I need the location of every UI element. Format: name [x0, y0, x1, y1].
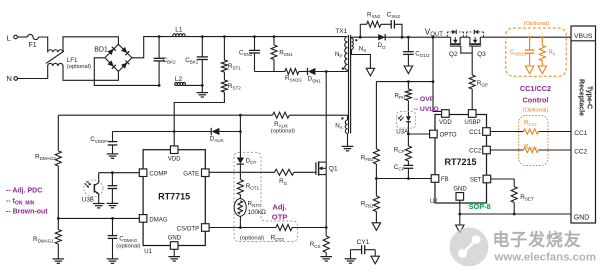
svg-text:USBP: USBP: [464, 120, 480, 126]
ground at Rb: [538, 66, 546, 74]
transformer TX1 core: [349, 35, 351, 133]
ground primary at U1 GND: [168, 257, 180, 261]
resistor RST2: [221, 72, 241, 92]
svg-text:GND: GND: [453, 187, 467, 193]
capacitor at COMP: [108, 173, 118, 204]
wire Q1 source down to CS node: [325, 168, 327, 236]
ground primary at CDMAG: [107, 259, 119, 263]
node junction RDMAG divider: [57, 217, 60, 220]
wire VBUS rail Q3 to receptacle: [480, 36, 571, 38]
terminal L (AC line input): [7, 34, 18, 43]
wire ground rail L2 to CBK1: [186, 84, 203, 86]
wire VDD sense from VOUT: [433, 37, 442, 111]
svg-text:(optional): (optional): [67, 64, 91, 70]
resistor RCC2 (optional): [524, 145, 539, 153]
ground primary at COMP cap: [107, 203, 119, 207]
svg-text:U3B: U3B: [82, 197, 94, 204]
svg-text:100kΩ: 100kΩ: [248, 209, 267, 216]
svg-text:DMAG: DMAG: [149, 218, 167, 224]
svg-text:L2: L2: [175, 76, 183, 83]
terminal N (AC neutral input): [7, 74, 18, 83]
svg-text:N: N: [7, 74, 12, 83]
pin COMP of U1: [139, 169, 167, 177]
ground primary at CVDDP: [107, 154, 119, 158]
common-mode choke LF1 (optional): [46, 50, 91, 70]
pin SET of U2: [470, 175, 491, 183]
svg-text:CC1: CC1: [574, 130, 587, 137]
thermistor RNTC 100k: [234, 199, 266, 228]
transistor Q3 (load switch): [467, 30, 487, 59]
node junction CDMAG top: [111, 217, 114, 220]
wire U2 GND pin down: [459, 200, 461, 225]
svg-text:-- UVLO: -- UVLO: [414, 106, 439, 113]
svg-text:Adj.: Adj.: [272, 203, 286, 212]
label CC1/CC2 Control: [520, 84, 551, 114]
wire CS/OTP line: [209, 227, 326, 229]
svg-text:(optional): (optional): [271, 128, 295, 134]
node junction drain at snubber: [325, 70, 328, 73]
label UVLO: [414, 106, 439, 113]
svg-text:SOP-8: SOP-8: [469, 202, 491, 211]
node junction FB divider: [375, 177, 378, 180]
resistor RCC1 (optional): [524, 120, 539, 134]
optional label above CVBUS box: [524, 21, 550, 27]
snubber capacitor CSN2: [381, 12, 402, 38]
node junction RPH top: [407, 80, 410, 83]
capacitor CBK2: [154, 37, 177, 86]
wire VDD rail: [113, 131, 241, 133]
svg-text:FB: FB: [441, 177, 449, 183]
node junction CS at Q1 source: [325, 226, 328, 229]
optocoupler U3B (transistor side): [82, 173, 103, 204]
svg-text:RT7215: RT7215: [444, 157, 476, 167]
svg-text:F1: F1: [29, 42, 37, 49]
svg-text:-- Brown-out: -- Brown-out: [6, 209, 48, 216]
ground at CVBUS: [525, 66, 533, 74]
resistor RAUX (optional): [271, 112, 295, 134]
transformer TX1 secondary winding NS: [352, 38, 367, 53]
pin CC2 of U2: [469, 146, 490, 154]
label OVP: [414, 96, 435, 103]
resistor RCS: [310, 236, 330, 257]
wire NA top to aux line: [347, 115, 349, 120]
pin OPTO of U2: [430, 130, 457, 138]
diode DSN1: [308, 68, 322, 83]
node junction VDD pin feed: [173, 130, 176, 133]
svg-text:Control: Control: [523, 96, 549, 105]
capacitor CVDDP: [90, 132, 117, 154]
resistor RST1: [221, 37, 241, 73]
controller U1 RT7715 body: [143, 150, 205, 255]
node junction VOUT sense: [432, 36, 435, 39]
svg-text:CC2: CC2: [469, 149, 482, 155]
svg-text:电子发烧友: 电子发烧友: [493, 230, 582, 250]
wire NS bottom to secondary ground: [352, 49, 371, 68]
wire RSN1G to DSN1: [299, 71, 308, 73]
wire NA bottom to primary ground: [347, 133, 349, 146]
capacitor CY1: [351, 239, 376, 254]
pin VDD of U2: [439, 110, 452, 126]
svg-text:VBUS: VBUS: [574, 33, 593, 40]
wire output rail NS to Q2: [352, 36, 451, 38]
wire N terminal to LF1 bottom winding: [18, 66, 48, 79]
svg-text:CVBUS: CVBUS: [510, 50, 526, 57]
ground secondary at NS: [366, 68, 374, 76]
svg-text:VDD: VDD: [439, 120, 452, 126]
ground secondary at CY1: [371, 256, 379, 264]
wire secondary GND rail: [460, 213, 571, 215]
optional box RCC1 RCC2: [519, 116, 548, 166]
wire L terminal to fuse F1: [17, 36, 27, 38]
svg-text:VDD: VDD: [168, 156, 181, 162]
svg-text:(Optional): (Optional): [523, 108, 549, 114]
resistor RSN1G: [285, 69, 302, 83]
node junction ground rail at CBK1: [201, 84, 204, 87]
node junction C_BK1 top: [201, 35, 204, 38]
optocoupler U3A (LED side): [396, 112, 415, 136]
fuse F1: [28, 34, 39, 49]
resistor RSET: [511, 187, 534, 215]
node junction snubber2 left: [359, 36, 362, 39]
wire COMP line: [99, 172, 140, 174]
label Adj PDC: [6, 188, 42, 195]
wire U3A to OPTO pin: [408, 122, 429, 134]
wire CC1 line: [490, 131, 571, 133]
wire CC2 line: [490, 149, 571, 151]
wire SET to RSET: [491, 179, 515, 187]
resistor RDMAG1: [33, 218, 61, 259]
svg-text:L1: L1: [175, 26, 183, 33]
pin GND of U2: [453, 187, 467, 201]
resistor RFB2: [361, 82, 380, 179]
capacitor CDMAG (optional): [108, 218, 141, 259]
wire bridge positive output to DC rail: [132, 37, 173, 58]
svg-text:CC2: CC2: [574, 148, 587, 155]
optional box Adj OTP: [234, 152, 298, 241]
node junction CO top: [407, 36, 410, 39]
resistor ROT2 (optional): [271, 225, 292, 242]
svg-text:L: L: [7, 34, 11, 43]
resistor RSN1: [271, 37, 293, 72]
wire FB line: [376, 178, 431, 180]
svg-text:Rb: Rb: [549, 50, 556, 57]
pin DMAG of U1: [139, 215, 167, 224]
node junction comp cap: [111, 171, 114, 174]
svg-text:U1: U1: [144, 249, 152, 255]
node junction GND rail at U2: [458, 213, 461, 216]
wire CY1 left to primary ground: [350, 250, 352, 259]
node junction OTP chain to CS line: [239, 226, 242, 229]
svg-text:BD1: BD1: [94, 46, 108, 53]
wire drain node down to Q1 drain: [325, 72, 327, 163]
ground primary at CBK1: [197, 85, 209, 97]
wire aux line NA to RDMAG2: [58, 114, 347, 116]
op-amp/controller U2 RT7215 body: [430, 115, 487, 205]
wire LF1 top winding to top rail: [63, 37, 118, 53]
wire DC rail L1 to transformer: [185, 36, 347, 38]
Type-C receptacle box: [571, 26, 596, 223]
wire F1 to LF1 top winding: [39, 37, 48, 52]
svg-text:-- Adj. PDC: -- Adj. PDC: [6, 188, 42, 195]
svg-text:Receptacle: Receptacle: [578, 79, 585, 116]
watermark text elecfans: [493, 230, 597, 264]
ground secondary at RFB1: [372, 223, 380, 231]
capacitor CBK1: [185, 37, 208, 86]
svg-text:CC1/CC2: CC1/CC2: [520, 84, 551, 93]
node junction RSET bottom: [513, 213, 516, 216]
node junction C_SN1 top: [253, 35, 256, 38]
capacitor CVBUS (optional): [510, 36, 534, 66]
transformer TX1 label: [335, 28, 347, 35]
wire NP bottom to drain node: [347, 70, 349, 72]
wire RPH feed line: [376, 81, 433, 83]
node junction aux diode to OTP chain: [239, 130, 242, 133]
node junction OPTO node: [407, 133, 410, 136]
svg-text:-- OVP: -- OVP: [414, 96, 435, 103]
node junction ground rail at CBK2: [158, 84, 161, 87]
svg-text:GATE: GATE: [183, 171, 199, 177]
svg-text:TX1: TX1: [335, 28, 347, 35]
svg-text:RCC1: RCC1: [524, 120, 538, 127]
svg-text:OPTO: OPTO: [440, 133, 457, 139]
resistor RCP: [394, 134, 412, 161]
label SOP-8: [469, 202, 491, 211]
pin CS/OTP of U1: [177, 224, 209, 233]
pin CC1 of U2: [469, 128, 490, 136]
resistor RDMAG2: [35, 115, 61, 218]
svg-text:SET: SET: [470, 178, 482, 184]
pin USBP of U2: [464, 110, 480, 126]
ground secondary at CO1/2: [404, 66, 412, 74]
svg-text:Type-C: Type-C: [586, 86, 593, 109]
inductor L1: [173, 26, 186, 36]
transistor Q2 (load switch): [447, 30, 463, 59]
svg-text:CC1: CC1: [469, 130, 482, 136]
node junction R_ST1 top: [223, 35, 226, 38]
transformer TX1 auxiliary winding NA: [335, 117, 347, 133]
node junction CCP bottom: [407, 177, 410, 180]
net label VOUT: [425, 28, 443, 39]
diode DAUX: [210, 128, 224, 143]
resistor RPH: [394, 82, 411, 117]
label Adj OTP: [272, 203, 288, 222]
wire aux junction down to VDD rail: [239, 115, 241, 131]
svg-text:COMP: COMP: [149, 171, 167, 177]
svg-text:RT7715: RT7715: [158, 191, 190, 201]
snubber resistor RSN2: [360, 12, 381, 38]
svg-text:www.elecfans.com: www.elecfans.com: [494, 252, 597, 264]
capacitor CO1/2: [403, 37, 430, 66]
svg-text:GND: GND: [574, 215, 590, 222]
svg-text:OTP: OTP: [272, 213, 288, 222]
node junction C_BK2 top: [158, 35, 161, 38]
transformer TX1 primary winding NP: [335, 37, 348, 70]
wire U1 GND to ground: [173, 249, 175, 256]
resistor ROT1: [237, 164, 259, 199]
svg-text:(optional): (optional): [240, 235, 264, 241]
svg-text:CY1: CY1: [357, 239, 370, 246]
ground primary at RDMAG1: [53, 259, 65, 263]
pin GND of U1: [168, 235, 182, 249]
svg-text:CS/OTP: CS/OTP: [177, 227, 199, 233]
watermark logo: [450, 228, 489, 267]
svg-text:Q1: Q1: [329, 165, 338, 172]
node junction R_SN1 top: [273, 35, 276, 38]
node junction RPH tap: [432, 80, 435, 83]
svg-text:RCC2: RCC2: [524, 145, 538, 152]
wire GATE line: [209, 171, 316, 173]
wire NS top to output rail: [351, 37, 353, 38]
resistor Rb (optional): [539, 36, 556, 66]
wire CY1 right to secondary ground: [374, 250, 376, 257]
svg-text:LF1: LF1: [67, 57, 78, 64]
ground primary at U3B: [93, 204, 105, 208]
wire bridge negative output to primary ground rail: [94, 58, 159, 86]
ground primary at NA: [342, 146, 354, 150]
wire output rail between Q2 and Q3: [460, 36, 470, 38]
pin FB of U2: [431, 175, 448, 183]
wire RST2 to VDD feed: [174, 92, 224, 146]
capacitor CCP: [394, 161, 413, 179]
svg-text:(optional): (optional): [116, 244, 140, 250]
transistor Q1 (primary MOSFET): [316, 161, 338, 175]
label Brown-out: [6, 209, 48, 216]
wire Q3 gate down: [471, 46, 473, 53]
pin VDD of U1: [168, 146, 181, 163]
wire snubber bottom: [255, 71, 285, 73]
node junction DO cathode: [401, 36, 404, 39]
svg-text:Q2: Q2: [449, 51, 458, 58]
resistor RFB1: [361, 179, 380, 223]
label tON_MIN: [6, 198, 35, 207]
resistor RGP: [469, 53, 488, 110]
node junction aux line to DOT chain: [239, 114, 242, 117]
svg-text:GND: GND: [168, 235, 182, 241]
diode DOT: [237, 132, 257, 166]
diode DO: [377, 34, 386, 50]
wire DMAG line: [58, 217, 139, 219]
wire LF1 bottom winding to bridge bottom: [63, 66, 118, 80]
ground primary at RCS: [320, 257, 332, 261]
inductor L2: [175, 76, 186, 85]
wire DSN1 to drain node: [315, 71, 347, 73]
ground primary at CY1: [345, 259, 357, 263]
bridge rectifier BD1: [94, 44, 132, 71]
ground secondary at U2 GND: [456, 225, 464, 233]
svg-text:Q3: Q3: [477, 51, 486, 58]
resistor RG: [275, 169, 294, 186]
svg-text:U2: U2: [430, 199, 438, 205]
capacitor CSN1: [239, 37, 260, 72]
optional box CVBUS Rb: [506, 28, 566, 76]
pin GATE of U1: [183, 169, 209, 177]
wire Q2 gate to Q3 gate junction: [461, 46, 472, 53]
svg-text:(Optional): (Optional): [524, 21, 550, 27]
